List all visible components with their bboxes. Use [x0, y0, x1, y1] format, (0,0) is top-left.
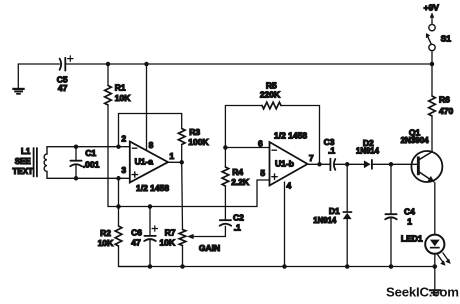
svg-text:220K: 220K — [260, 90, 281, 100]
wire pin6 — [225, 147, 269, 149]
svg-text:L1: L1 — [21, 147, 31, 156]
svg-text:C4: C4 — [404, 206, 415, 216]
wire tank bottom — [47, 177, 130, 179]
capacitor C1 — [75, 147, 77, 160]
svg-text:SEE: SEE — [15, 157, 32, 166]
svg-text:1/2 1458: 1/2 1458 — [274, 130, 307, 140]
node D1 top — [345, 162, 350, 167]
svg-text:D1: D1 — [329, 206, 340, 216]
inductor L1 — [34, 148, 37, 177]
node pin8 top — [144, 62, 149, 67]
switch S1 — [429, 44, 435, 50]
svg-text:.1: .1 — [234, 222, 241, 232]
svg-text:2.2K: 2.2K — [231, 177, 250, 187]
node U1-a output — [179, 160, 184, 165]
resistor R2 — [118, 207, 120, 227]
svg-text:SeekIC.com: SeekIC.com — [386, 285, 459, 300]
node C4 top — [389, 162, 394, 167]
node bias C6 — [148, 204, 153, 209]
node pin2 junction — [116, 144, 121, 149]
svg-text:R6: R6 — [439, 95, 450, 105]
svg-text:1/2 1458: 1/2 1458 — [136, 183, 169, 193]
wire pin 8 power stub — [146, 64, 148, 150]
capacitor C4 — [390, 164, 392, 213]
wire LED to rail — [434, 254, 436, 267]
svg-text:1N914: 1N914 — [356, 147, 380, 156]
node S1 rail — [430, 62, 435, 67]
wire collector to R6 — [431, 116, 433, 152]
svg-text:1: 1 — [407, 216, 412, 226]
svg-text:5: 5 — [260, 168, 265, 178]
svg-text:1: 1 — [169, 151, 174, 161]
wire pin4 to ground rail — [284, 182, 286, 267]
LED arrows — [438, 255, 444, 264]
diode D2 — [364, 160, 371, 168]
wire R5 feedback loop — [225, 106, 262, 148]
svg-text:100K: 100K — [188, 137, 209, 147]
wire top rail — [65, 63, 432, 65]
LED LED1 — [425, 235, 444, 254]
capacitor C3 — [330, 159, 335, 171]
node rail LED — [433, 264, 438, 269]
wire output down to R7 — [181, 162, 184, 229]
node bias R2 — [116, 204, 121, 209]
svg-text:LED1: LED1 — [401, 234, 423, 244]
capacitor C5 — [60, 58, 66, 71]
svg-text:470: 470 — [439, 106, 453, 116]
svg-text:2N3904: 2N3904 — [401, 136, 430, 145]
svg-text:C2: C2 — [233, 213, 244, 223]
op-amp U1-a — [130, 142, 168, 183]
svg-text:1N914: 1N914 — [313, 216, 337, 225]
resistor R5 — [262, 102, 281, 109]
transistor Q1 — [411, 151, 442, 182]
capacitor C6 — [149, 207, 151, 236]
svg-text:7: 7 — [309, 153, 314, 163]
wiper arrow R7 — [192, 226, 225, 236]
svg-text:U1-b: U1-b — [275, 158, 294, 168]
svg-text:R4: R4 — [232, 167, 243, 177]
node C1 top — [74, 144, 79, 149]
svg-text:3: 3 — [121, 165, 126, 175]
wire tank top — [47, 146, 130, 148]
wire node to D2 — [347, 163, 364, 165]
svg-text:6: 6 — [258, 138, 263, 148]
svg-text:R2: R2 — [100, 228, 111, 238]
svg-text:10K: 10K — [115, 93, 131, 103]
wire — [18, 63, 59, 65]
wire node to Q1 base — [391, 163, 417, 165]
svg-text:10K: 10K — [98, 238, 114, 248]
node rail D1 — [345, 264, 350, 269]
svg-text:2: 2 — [121, 133, 126, 143]
svg-text:47: 47 — [58, 83, 68, 93]
node rail C6 — [148, 264, 153, 269]
node R5 output — [317, 162, 322, 167]
node rail C4 — [389, 264, 394, 269]
node rail pin4 — [282, 264, 287, 269]
svg-text:47: 47 — [131, 238, 141, 248]
wire emitter to LED — [434, 183, 436, 235]
svg-text:.001: .001 — [83, 160, 100, 170]
wire U1-b output — [308, 163, 330, 165]
svg-text:8: 8 — [149, 140, 154, 150]
svg-text:R1: R1 — [115, 83, 126, 93]
resistor R3 — [181, 114, 183, 129]
resistor R1 — [107, 64, 109, 86]
node C1 bottom — [74, 176, 79, 181]
wire R1 lead down to bias rail — [108, 105, 119, 207]
node pin3 junction — [116, 176, 121, 181]
wire ground rail — [119, 266, 435, 268]
svg-text:GAIN: GAIN — [199, 243, 220, 253]
op-amp U1-b — [270, 142, 308, 186]
svg-text:C6: C6 — [131, 228, 142, 238]
wire feedback riser U1-a — [119, 114, 182, 147]
wire U1-a output — [168, 161, 182, 163]
wire bias rail — [119, 180, 270, 207]
node R1 top — [106, 62, 111, 67]
svg-text:S1: S1 — [441, 33, 452, 43]
+9V terminal — [431, 17, 433, 25]
ground — [17, 64, 19, 88]
potentiometer R7 — [179, 230, 186, 246]
capacitor C2 — [220, 220, 232, 226]
svg-text:R3: R3 — [189, 127, 200, 137]
diode D1 — [346, 164, 348, 211]
svg-text:U1-a: U1-a — [135, 156, 154, 166]
svg-text:R7: R7 — [165, 228, 176, 238]
resistor R6 — [429, 96, 436, 116]
node rail R7 — [180, 264, 185, 269]
svg-text:4: 4 — [287, 180, 292, 190]
svg-text:TEXT: TEXT — [12, 167, 33, 176]
wire pin3 to bias rail — [118, 178, 120, 206]
ground right — [434, 267, 436, 290]
resistor R4 — [222, 167, 229, 186]
svg-text:.1: .1 — [328, 146, 335, 156]
svg-text:10K: 10K — [160, 238, 176, 248]
svg-text:+9V: +9V — [424, 2, 440, 12]
node U1-b pin6 — [223, 145, 228, 150]
svg-text:C1: C1 — [85, 148, 96, 158]
